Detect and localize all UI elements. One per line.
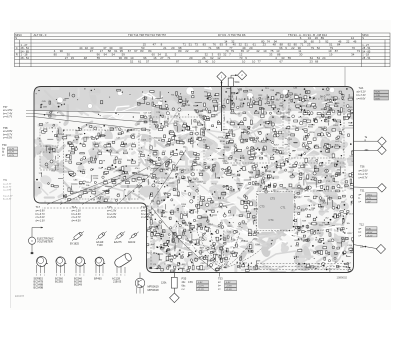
right diamond 1 (378, 137, 387, 146)
dashed module boundary boxes (40, 99, 345, 231)
wire callout2 to resistor (231, 75, 237, 78)
svg-text:R150: R150 (197, 137, 203, 139)
svg-text:27: 27 (160, 56, 164, 60)
svg-text:c: c (44, 275, 45, 277)
svg-text:54: 54 (112, 53, 116, 57)
svg-text:46: 46 (353, 39, 357, 43)
svg-text:51: 51 (189, 43, 193, 47)
long callout line to T53 (152, 208, 218, 273)
svg-text:47k: 47k (324, 127, 327, 129)
copper trace layer (6, 74, 385, 280)
svg-text:73: 73 (357, 49, 361, 53)
svg-text:C201: C201 (147, 228, 153, 230)
wire callout1 into board overdraw (221, 81, 223, 131)
svg-text:R150: R150 (224, 147, 230, 149)
svg-text:1089002: 1089002 (337, 276, 348, 280)
svg-text:89: 89 (124, 56, 128, 60)
svg-text:98: 98 (216, 46, 220, 50)
svg-text:C114: C114 (86, 137, 92, 139)
transistor can 1 BC547 series (35, 255, 49, 268)
svg-text:VOLTMETER: VOLTMETER (37, 240, 53, 244)
svg-text:d=+1.3V: d=+1.3V (36, 220, 46, 223)
svg-text:28 - 54: 28 - 54 (21, 56, 30, 60)
svg-text:T1A: T1A (72, 205, 77, 209)
svg-text:T13: T13 (141, 205, 146, 209)
svg-text:C114: C114 (288, 172, 294, 174)
svg-text:96: 96 (119, 56, 123, 60)
svg-text:47: 47 (153, 43, 157, 47)
svg-text:10: 10 (263, 49, 267, 53)
svg-text:88: 88 (277, 53, 281, 57)
svg-text:R217: R217 (66, 135, 72, 137)
svg-text:T53: T53 (218, 277, 223, 281)
svg-text:120k: 120k (161, 282, 167, 285)
svg-text:+2V: +2V (367, 201, 371, 203)
svg-text:1 - 18: 1 - 18 (21, 53, 28, 57)
svg-text:71: 71 (208, 46, 212, 50)
svg-text:R116: R116 (321, 109, 327, 111)
svg-text:R116: R116 (281, 117, 287, 119)
svg-text:68: 68 (315, 59, 319, 63)
right diamond 2 (378, 146, 387, 155)
svg-text:R150: R150 (192, 127, 198, 129)
svg-text:67: 67 (128, 49, 132, 53)
transistor can 2 BC360 (55, 256, 68, 268)
svg-text:42: 42 (256, 49, 260, 53)
svg-text:90: 90 (60, 49, 64, 53)
svg-text:T51: T51 (360, 189, 365, 193)
svg-text:c=+6.7V: c=+6.7V (3, 115, 12, 118)
svg-text:48: 48 (273, 43, 277, 47)
svg-text:R150: R150 (220, 141, 226, 143)
svg-text:79: 79 (231, 49, 235, 53)
svg-text:R116: R116 (337, 243, 343, 245)
svg-text:C201: C201 (210, 252, 216, 254)
svg-text:R217: R217 (232, 165, 238, 167)
transistor can 4 BF465 (94, 256, 107, 268)
transistor can 5 AC128 (113, 252, 132, 269)
svg-text:9.2V: 9.2V (376, 92, 381, 94)
svg-text:+1.2V: +1.2V (198, 289, 204, 291)
svg-text:15: 15 (71, 56, 75, 60)
svg-text:C201: C201 (317, 242, 323, 244)
svg-text:22: 22 (185, 49, 189, 53)
svg-text:84: 84 (337, 43, 341, 47)
svg-text:23: 23 (263, 43, 267, 47)
svg-text:T15: T15 (107, 205, 112, 209)
svg-text:10: 10 (242, 59, 246, 63)
svg-text:R116: R116 (334, 182, 340, 184)
svg-text:C114: C114 (54, 165, 60, 167)
wire resistor to diamond (173, 288, 175, 293)
svg-text:T17: T17 (36, 205, 41, 209)
svg-text:55: 55 (288, 56, 292, 60)
svg-text:R217: R217 (274, 145, 280, 147)
svg-text:C114: C114 (242, 262, 248, 264)
svg-text:19: 19 (329, 53, 333, 57)
svg-text:500k: 500k (235, 82, 241, 84)
svg-text:1 - 18: 1 - 18 (362, 53, 369, 57)
svg-text:20: 20 (171, 46, 175, 50)
svg-text:1a=+1.2V: 1a=+1.2V (3, 196, 13, 198)
svg-text:C201: C201 (142, 139, 148, 141)
svg-text:24: 24 (322, 56, 326, 60)
svg-text:BC549B: BC549B (34, 286, 44, 290)
svg-text:22: 22 (291, 46, 295, 50)
svg-text:S: S (362, 36, 364, 40)
wire to bottom right diamond (353, 245, 376, 249)
wire board to T53 (219, 273, 221, 277)
svg-text:33: 33 (269, 53, 273, 57)
svg-text:c=+8.7V: c=+8.7V (359, 176, 368, 179)
svg-text:d=+4.5V: d=+4.5V (72, 220, 82, 223)
svg-text:9H-D: 9H-D (320, 97, 326, 99)
svg-text:32: 32 (85, 46, 89, 50)
svg-text:40: 40 (205, 59, 209, 63)
svg-text:R150: R150 (308, 126, 314, 128)
svg-text:C114: C114 (86, 182, 92, 184)
svg-text:R217: R217 (147, 253, 153, 255)
svg-text:c=+8.8V: c=+8.8V (141, 216, 150, 219)
svg-text:C201: C201 (287, 139, 293, 141)
svg-text:T56: T56 (360, 165, 365, 169)
board outline (34, 87, 354, 273)
svg-text:10k: 10k (191, 140, 194, 142)
svg-text:C114: C114 (347, 245, 353, 247)
svg-text:71: 71 (183, 43, 187, 47)
svg-text:R: R (16, 53, 18, 57)
svg-text:MISC: MISC (362, 33, 369, 37)
svg-text:EA275: EA275 (114, 241, 122, 244)
svg-text:CT1: CT1 (281, 206, 286, 210)
svg-text:80: 80 (178, 49, 182, 53)
svg-text:10: 10 (252, 59, 256, 63)
svg-text:20: 20 (249, 46, 253, 50)
svg-text:70: 70 (352, 46, 356, 50)
svg-text:BY1825: BY1825 (70, 243, 80, 246)
resistor 500k (228, 78, 233, 87)
svg-text:D7 D3 - 5 T99 T54 D6: D7 D3 - 5 T99 T54 D6 (218, 33, 246, 37)
svg-text:ALT 99 - 0: ALT 99 - 0 (34, 33, 47, 37)
svg-text:61: 61 (253, 43, 257, 47)
component scatter layer (36, 88, 358, 276)
svg-text:32: 32 (223, 53, 227, 57)
svg-text:37: 37 (103, 46, 107, 50)
svg-text:93: 93 (220, 43, 224, 47)
diode 9A102 (131, 233, 137, 239)
svg-text:R150: R150 (181, 204, 187, 206)
svg-text:83: 83 (140, 49, 144, 53)
wire board to resistor 120k (173, 273, 175, 278)
transistor symbol MP50619 (139, 273, 141, 279)
svg-text:BC549: BC549 (74, 283, 82, 287)
svg-text:c=+5.0V: c=+5.0V (107, 216, 116, 219)
right diamond 3 (378, 184, 387, 193)
svg-text:61: 61 (114, 49, 118, 53)
svg-text:c=+8.6V: c=+8.6V (357, 97, 366, 100)
svg-text:R150: R150 (93, 178, 99, 180)
svg-text:CT3: CT3 (260, 205, 265, 209)
bottom right diamond (376, 244, 385, 253)
svg-text:+5ms: +5ms (367, 194, 373, 196)
svg-text:C201: C201 (333, 125, 339, 127)
wire to diamond right 2 (354, 149, 378, 151)
svg-text:9H-A: 9H-A (207, 96, 213, 99)
shield can CT area (258, 193, 293, 229)
svg-text:T100: T100 (97, 244, 103, 247)
svg-text:+0.2V: +0.2V (9, 155, 15, 157)
svg-text:P35: P35 (182, 277, 187, 281)
svg-text:+1.6V: +1.6V (226, 289, 232, 291)
svg-text:MP50618: MP50618 (148, 288, 160, 292)
svg-text:94: 94 (104, 53, 108, 57)
svg-text:R116: R116 (218, 137, 224, 139)
svg-text:R150: R150 (310, 132, 316, 134)
dashed fan curves bottom center (183, 228, 262, 268)
wire to diamond right 1 (354, 140, 378, 142)
svg-text:c: c (124, 275, 125, 277)
svg-text:23: 23 (310, 59, 314, 63)
svg-text:9H-C: 9H-C (286, 97, 292, 99)
svg-text:71: 71 (167, 56, 171, 60)
wire T2A tick (344, 67, 346, 87)
svg-text:CT5: CT5 (270, 197, 275, 201)
svg-text:48: 48 (84, 56, 88, 60)
svg-text:80: 80 (54, 53, 58, 57)
svg-text:CT4: CT4 (269, 218, 274, 222)
diode EA275 (116, 232, 123, 239)
svg-text:79: 79 (311, 46, 315, 50)
svg-text:BC365: BC365 (55, 280, 63, 284)
svg-text:BF465: BF465 (94, 277, 102, 281)
svg-text:44: 44 (79, 46, 83, 50)
svg-text:12: 12 (217, 56, 221, 60)
svg-text:61: 61 (138, 59, 142, 63)
svg-text:3.7V: 3.7V (367, 198, 372, 200)
svg-text:16: 16 (153, 56, 157, 60)
bottom diamond connector (170, 293, 180, 303)
svg-text:47k: 47k (180, 151, 183, 153)
svg-text:8.6V: 8.6V (376, 98, 381, 100)
diode AA119 (98, 232, 105, 239)
svg-text:C114: C114 (255, 244, 261, 246)
resistor 120k (171, 277, 177, 288)
svg-text:S: S (15, 36, 17, 40)
parts location index table (15, 33, 391, 67)
svg-text:C: C (16, 46, 18, 50)
svg-text:C114: C114 (329, 175, 335, 177)
diode BY1825 (73, 232, 82, 240)
svg-text:60: 60 (311, 39, 315, 43)
svg-text:22: 22 (198, 59, 202, 63)
page edge line (10, 188, 12, 308)
svg-text:40: 40 (233, 43, 237, 47)
svg-text:R150: R150 (212, 184, 218, 186)
svg-text:54 - 85: 54 - 85 (362, 49, 371, 53)
svg-text:T12: T12 (359, 223, 364, 227)
svg-text:V: V (31, 239, 33, 243)
svg-text:67: 67 (134, 49, 138, 53)
svg-text:R116: R116 (276, 93, 282, 95)
svg-text:57: 57 (146, 59, 150, 63)
svg-text:10: 10 (212, 59, 216, 63)
svg-text:b=+0.4V: b=+0.4V (3, 199, 12, 201)
svg-text:77: 77 (258, 59, 262, 63)
svg-text:b=+0.7V: b=+0.7V (3, 187, 12, 189)
svg-text:R150: R150 (248, 252, 254, 254)
svg-text:52: 52 (317, 46, 321, 50)
svg-text:9A102: 9A102 (128, 241, 136, 244)
svg-text:1k: 1k (83, 143, 85, 145)
svg-text:37: 37 (90, 49, 94, 53)
svg-text:52: 52 (130, 59, 134, 63)
svg-text:R150: R150 (124, 174, 130, 176)
left callout lines into board (34, 110, 141, 113)
svg-text:21: 21 (163, 46, 167, 50)
svg-text:+0.5V: +0.5V (367, 232, 373, 234)
svg-text:67: 67 (280, 59, 284, 63)
svg-text:T90 T14 T98 T53 T10 T98 T57: T90 T14 T98 T53 T10 T98 T57 (128, 33, 167, 37)
svg-text:c: c (83, 275, 84, 277)
svg-text:28 - 54: 28 - 54 (362, 56, 371, 60)
svg-text:83: 83 (203, 43, 207, 47)
svg-text:0.4V: 0.4V (367, 228, 372, 230)
svg-text:C201: C201 (304, 179, 310, 181)
callout diamond 2 (237, 71, 246, 80)
svg-text:T50: T50 (2, 143, 7, 147)
svg-text:55: 55 (97, 56, 101, 60)
svg-text:C114: C114 (223, 163, 229, 165)
svg-text:30: 30 (299, 53, 303, 57)
svg-text:34: 34 (351, 53, 355, 57)
svg-text:1k: 1k (131, 159, 133, 161)
svg-text:54 - 85: 54 - 85 (21, 49, 30, 53)
svg-text:E00478: E00478 (15, 294, 25, 298)
wire resistor into board (230, 87, 232, 109)
svg-text:10k: 10k (270, 155, 273, 157)
svg-text:c: c (102, 275, 103, 277)
wire to diamond right 3 (354, 186, 378, 189)
svg-text:T2A: T2A (359, 86, 364, 90)
svg-text:17: 17 (246, 49, 250, 53)
svg-text:a=+2.1V: a=+2.1V (3, 183, 12, 185)
svg-text:89: 89 (321, 36, 325, 40)
electronic voltmeter symbol (28, 237, 35, 244)
svg-text:21B 03: 21B 03 (113, 280, 122, 284)
svg-text:0.8V: 0.8V (188, 281, 193, 284)
svg-text:C114: C114 (191, 179, 197, 181)
svg-text:66: 66 (279, 46, 283, 50)
wire from callout 1 into board (221, 81, 223, 130)
svg-text:73: 73 (195, 43, 199, 47)
svg-text:22: 22 (346, 39, 350, 43)
svg-text:87: 87 (176, 59, 180, 63)
svg-text:R217: R217 (347, 233, 353, 235)
svg-text:7.3V: 7.3V (376, 95, 381, 97)
dashed bottom bus lines (42, 208, 347, 269)
svg-text:74: 74 (267, 39, 271, 43)
svg-text:R116: R116 (166, 253, 172, 255)
wire resistor into board overdraw (230, 87, 232, 111)
transistor can 3 BC546 (74, 256, 87, 268)
svg-text:c=+1.9V: c=+1.9V (3, 190, 12, 192)
svg-text:20: 20 (189, 56, 193, 60)
svg-text:27: 27 (65, 56, 69, 60)
svg-text:+4.2V: +4.2V (367, 235, 373, 237)
callout lines from tables into board (47, 172, 128, 205)
svg-text:C114: C114 (208, 224, 214, 226)
svg-text:87: 87 (335, 49, 339, 53)
svg-text:23: 23 (195, 49, 199, 53)
svg-text:MISC: MISC (15, 33, 22, 37)
callout diamond 1 (217, 72, 226, 81)
svg-text:R217: R217 (235, 113, 241, 115)
svg-text:c=+6.5V: c=+6.5V (3, 136, 12, 139)
svg-text:c: c (64, 275, 65, 277)
